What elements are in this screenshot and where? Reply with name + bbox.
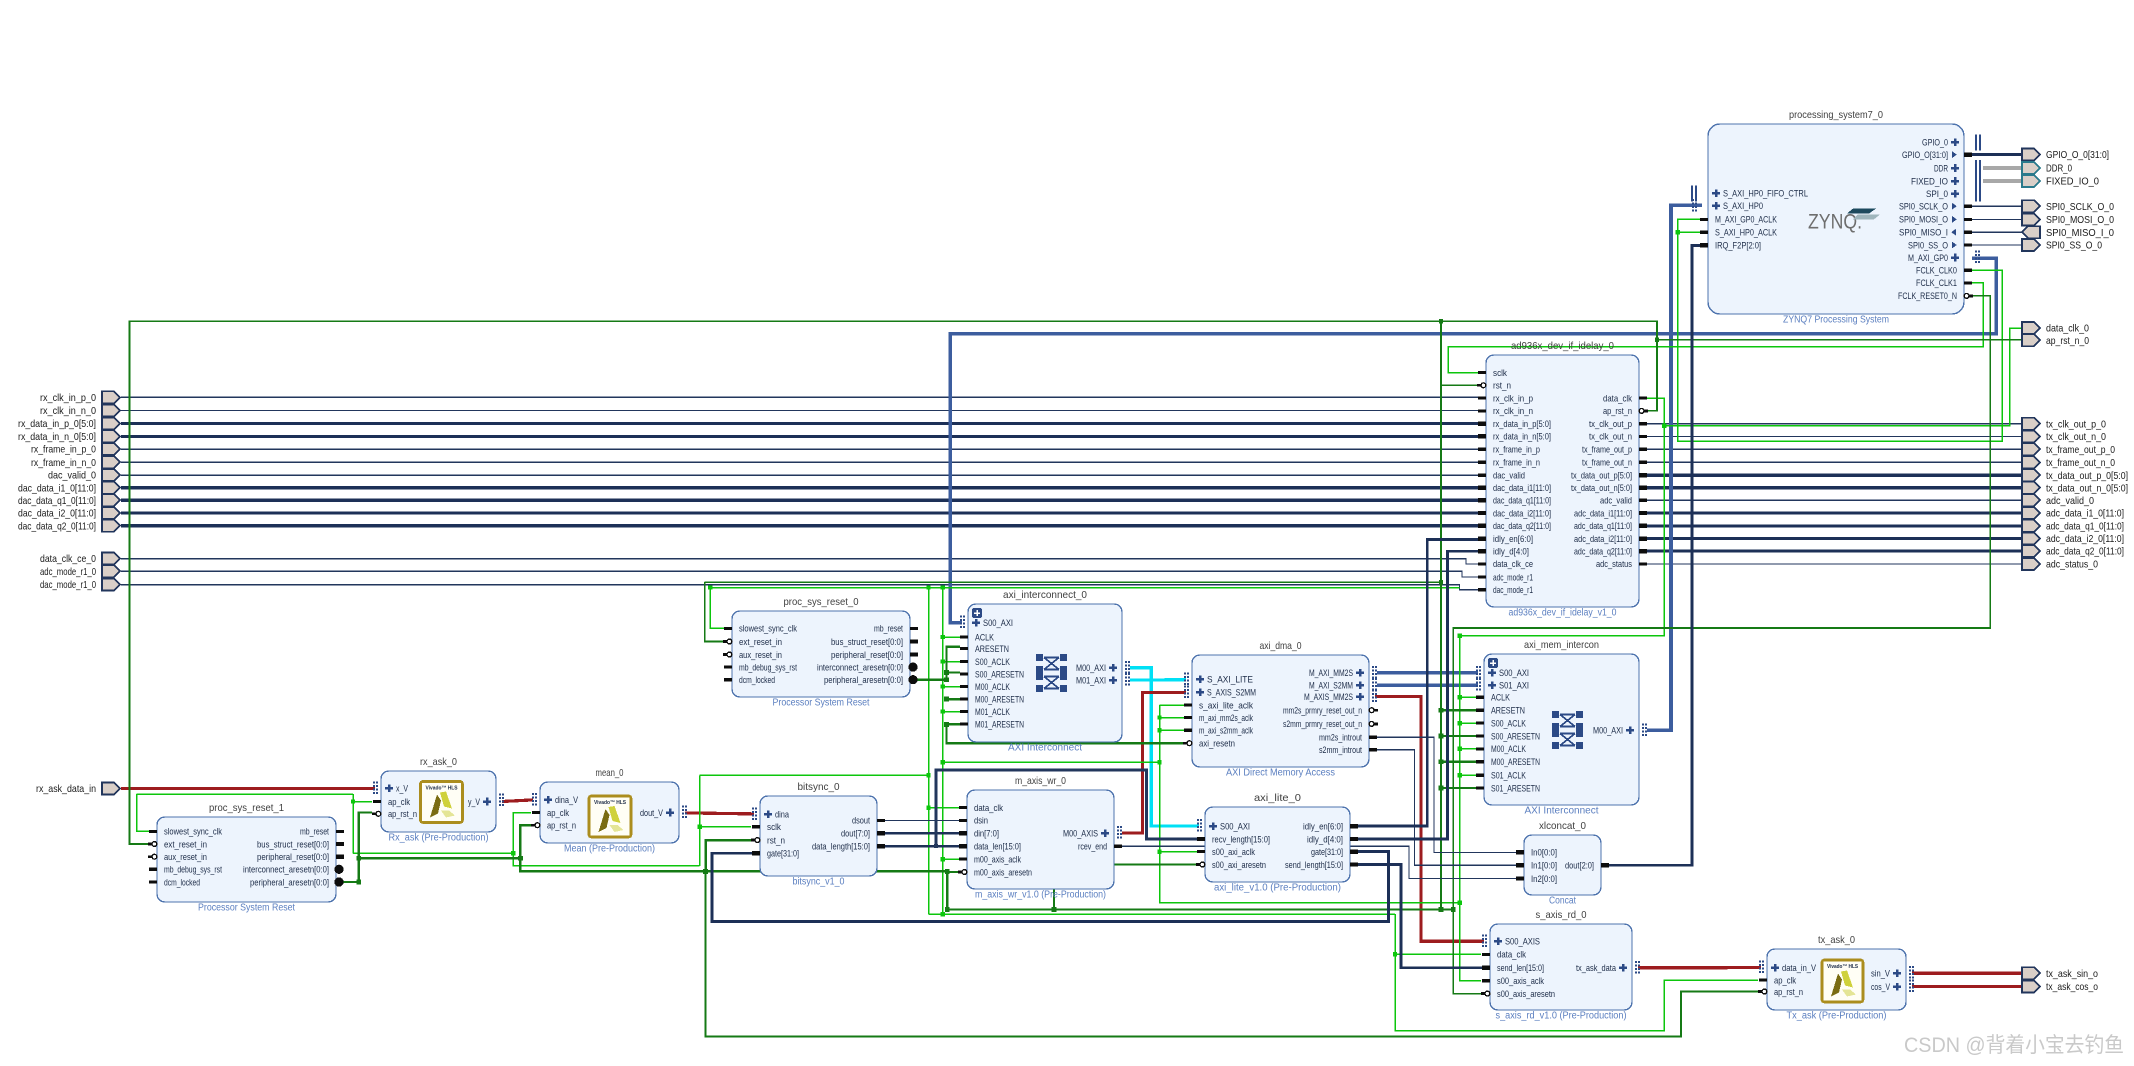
svg-text:s00_axis_aresetn: s00_axis_aresetn (1497, 989, 1555, 999)
svg-text:ap_clk: ap_clk (388, 797, 410, 807)
port tx_ask_cos_o (2022, 981, 2098, 994)
svg-text:tx_clk_out_p_0: tx_clk_out_p_0 (2046, 418, 2106, 430)
wire mem aresetn stub (1441, 709, 1476, 711)
wire mem aclk stub (1460, 774, 1476, 776)
svg-text:y_V: y_V (468, 797, 481, 807)
block bitsync_0 (751, 781, 885, 888)
svg-text:ap_rst_n: ap_rst_n (547, 821, 576, 831)
svg-text:dac_mode_r1: dac_mode_r1 (1493, 585, 1533, 595)
svg-text:bus_struct_reset[0:0]: bus_struct_reset[0:0] (831, 637, 903, 647)
svg-text:rx_frame_in_n_0: rx_frame_in_n_0 (31, 457, 96, 469)
port data_clk_ce_0 (40, 553, 120, 566)
wire data_length-&gt;data_len (884, 845, 960, 848)
svg-text:s00_axis_aclk: s00_axis_aclk (1497, 976, 1544, 986)
port tx_data_out_n_0[5:0] (2022, 482, 2128, 495)
svg-text:dcm_locked: dcm_locked (164, 877, 200, 887)
wire dma aclk stub (1160, 704, 1185, 706)
svg-text:S_AXI_HP0: S_AXI_HP0 (1723, 201, 1763, 211)
wire tx_data_out_n[5:0] (1647, 486, 2023, 489)
svg-text:tx_data_out_n[5:0]: tx_data_out_n[5:0] (1571, 483, 1632, 493)
wire idly_en (1357, 539, 1478, 826)
svg-text:adc_data_i1_0[11:0]: adc_data_i1_0[11:0] (2046, 508, 2124, 520)
wire adc_valid (1647, 499, 2023, 501)
svg-text:DDR_0: DDR_0 (2046, 163, 2072, 175)
svg-text:ZYNQ7 Processing System: ZYNQ7 Processing System (1783, 315, 1889, 326)
port SPI0_SS_O_0 (2022, 239, 2102, 252)
svg-text:rx_clk_in_n_0: rx_clk_in_n_0 (40, 405, 96, 417)
wire FIXED_IO (1983, 179, 2023, 183)
wire sclk stub (700, 826, 751, 828)
port SPI0_SCLK_O_0 (2022, 200, 2114, 213)
port rx_clk_in_p_0 (40, 391, 120, 404)
svg-text:SPI_0: SPI_0 (1926, 189, 1948, 199)
svg-text:AXI Direct Memory Access: AXI Direct Memory Access (1226, 768, 1335, 779)
port FIXED_IO_0 (2022, 175, 2099, 188)
svg-text:M00_AXI: M00_AXI (1593, 726, 1623, 736)
wire psr0 ext feed (705, 581, 1441, 583)
svg-text:adc_mode_r1_0: adc_mode_r1_0 (40, 566, 96, 578)
wire rx_data_in_p_0[5:0] (121, 422, 1478, 425)
svg-text:adc_mode_r1: adc_mode_r1 (1493, 572, 1533, 582)
svg-text:Concat: Concat (1549, 896, 1576, 907)
svg-text:M00_ARESETN: M00_ARESETN (1491, 757, 1540, 767)
block ad936x_dev_if_idelay_0 (1477, 340, 1648, 619)
svg-text:s00_axi_aclk: s00_axi_aclk (1212, 847, 1255, 857)
svg-text:dac_mode_r1_0: dac_mode_r1_0 (40, 579, 96, 591)
svg-text:tx_frame_out_p_0: tx_frame_out_p_0 (2046, 444, 2115, 456)
svg-text:Vivado™ HLS: Vivado™ HLS (426, 786, 458, 792)
wire M00_AXI-&gt;axi_lite.S00_AXI (1130, 668, 1199, 826)
svg-text:interconnect_aresetn[0:0]: interconnect_aresetn[0:0] (243, 865, 329, 875)
port rx_frame_in_n_0 (31, 456, 120, 469)
wire axilite aclk stub (1160, 851, 1198, 853)
port tx_clk_out_p_0 (2022, 418, 2106, 431)
svg-text:rx_ask_0: rx_ask_0 (420, 756, 457, 768)
wire saxisrd dclk drop (1395, 914, 1758, 1030)
svg-text:s2mm_prmry_reset_out_n: s2mm_prmry_reset_out_n (1283, 719, 1362, 729)
wire dma aclk stub (1160, 717, 1185, 719)
port ap_rst_n_0 (2022, 334, 2089, 347)
svg-text:S_AXIS_S2MM: S_AXIS_S2MM (1207, 688, 1256, 698)
svg-text:axi_lite_v1.0 (Pre-Production): axi_lite_v1.0 (Pre-Production) (1214, 883, 1341, 894)
block m_axis_wr_0 (958, 775, 1122, 901)
wire tx_clk_out_n (1647, 435, 2023, 437)
port rx_clk_in_n_0 (40, 405, 120, 418)
svg-text:dout[7:0]: dout[7:0] (841, 829, 870, 839)
svg-text:rx_frame_in_n: rx_frame_in_n (1493, 458, 1540, 468)
svg-text:tx_data_out_p[5:0]: tx_data_out_p[5:0] (1571, 471, 1632, 481)
svg-text:M_AXI_MM2S: M_AXI_MM2S (1309, 668, 1353, 678)
wire M_AXI_S2MM-&gt;S01_AXI(mem) (1377, 683, 1478, 687)
svg-text:sin_V: sin_V (1871, 969, 1891, 979)
svg-text:dac_data_q2[11:0]: dac_data_q2[11:0] (1493, 521, 1551, 531)
wire cos_V-&gt;port (1912, 985, 2023, 988)
svg-text:dout[2:0]: dout[2:0] (1565, 861, 1594, 871)
svg-text:mb_reset: mb_reset (874, 624, 903, 634)
port dac_valid_0 (48, 469, 120, 482)
svg-text:M_AXI_S2MM: M_AXI_S2MM (1309, 681, 1353, 691)
svg-text:M00_ACLK: M00_ACLK (1491, 744, 1527, 754)
svg-text:idly_d[4:0]: idly_d[4:0] (1493, 546, 1529, 556)
wire adc_data_q2[11:0] (1647, 550, 2023, 553)
svg-text:In0[0:0]: In0[0:0] (1531, 848, 1557, 858)
svg-text:SPI0_MISO_I: SPI0_MISO_I (1899, 228, 1948, 238)
svg-text:dac_data_q1[11:0]: dac_data_q1[11:0] (1493, 496, 1551, 506)
wire aclk stub (943, 661, 960, 663)
svg-text:M01_AXI: M01_AXI (1076, 675, 1106, 685)
svg-text:tx_frame_out_n_0: tx_frame_out_n_0 (2046, 457, 2115, 469)
svg-text:adc_data_q1[11:0]: adc_data_q1[11:0] (1574, 521, 1632, 531)
port DDR_0 (2022, 162, 2072, 175)
port data_clk_0 (2022, 322, 2089, 335)
block processing_system7_0 (1700, 109, 1973, 326)
block axi_mem_intercon (1476, 639, 1639, 817)
wire tx_frame_out_p (1647, 448, 2023, 450)
svg-text:tx_clk_out_n_0: tx_clk_out_n_0 (2046, 431, 2106, 443)
block mean_0 (531, 767, 679, 855)
wire rst_n stub (1441, 384, 1477, 386)
wire periph_aresetn0 (915, 647, 960, 680)
wire M00_AXIS-&gt;S_AXIS_S2MM (1122, 692, 1186, 833)
wire rx_frame_in_p_0 (121, 448, 1478, 450)
svg-text:axi_interconnect_0: axi_interconnect_0 (1003, 589, 1087, 601)
svg-text:peripheral_aresetn[0:0]: peripheral_aresetn[0:0] (824, 675, 903, 685)
svg-text:SPI0_SS_O_0: SPI0_SS_O_0 (2046, 240, 2102, 252)
svg-text:dac_data_q1_0[11:0]: dac_data_q1_0[11:0] (18, 495, 96, 507)
ZYNQ logo (1808, 209, 1880, 234)
svg-text:tx_ask_data: tx_ask_data (1576, 963, 1617, 973)
svg-text:ap_clk: ap_clk (547, 808, 569, 818)
svg-text:S00_AXIS: S00_AXIS (1505, 937, 1540, 947)
svg-text:Vivado™ HLS: Vivado™ HLS (1827, 964, 1858, 970)
port dac_data_q2_0[11:0] (18, 520, 120, 533)
wire rx_frame_in_n_0 (121, 461, 1478, 463)
svg-text:M_AXI_GP0: M_AXI_GP0 (1908, 253, 1948, 263)
svg-text:M00_ARESETN: M00_ARESETN (975, 694, 1024, 704)
svg-text:m_axi_mm2s_aclk: m_axi_mm2s_aclk (1199, 713, 1253, 723)
wire ap_rst_n main (130, 321, 1658, 844)
svg-text:s_axis_rd_v1.0 (Pre-Production: s_axis_rd_v1.0 (Pre-Production) (1496, 1011, 1627, 1022)
svg-text:S_AXI_HP0_FIFO_CTRL: S_AXI_HP0_FIFO_CTRL (1723, 189, 1808, 199)
svg-text:sclk: sclk (767, 822, 781, 832)
wire rcev_end-&gt;In2 (1121, 846, 1516, 878)
wire mem aresetn stub (1441, 735, 1476, 737)
svg-text:dac_data_i1[11:0]: dac_data_i1[11:0] (1493, 483, 1551, 493)
block xlconcat_0 (1516, 820, 1609, 907)
svg-text:Mean (Pre-Production): Mean (Pre-Production) (564, 844, 655, 855)
wire data_length-&gt;recv_length (936, 770, 1198, 846)
wire adc_data_i2[11:0] (1647, 537, 2023, 540)
wire sclk drop (699, 775, 701, 866)
wire bitsync rst (706, 840, 751, 871)
wire DDR (1983, 166, 2023, 170)
svg-text:FIXED_IO: FIXED_IO (1911, 176, 1948, 186)
svg-text:peripheral_reset[0:0]: peripheral_reset[0:0] (831, 650, 903, 660)
port tx_ask_sin_o (2022, 967, 2098, 980)
svg-text:ARESETN: ARESETN (975, 644, 1009, 654)
svg-text:rst_n: rst_n (767, 835, 785, 845)
svg-text:aux_reset_in: aux_reset_in (164, 852, 207, 862)
svg-text:ad936x_dev_if_idelay_0: ad936x_dev_if_idelay_0 (1511, 340, 1614, 352)
svg-text:AXI Interconnect: AXI Interconnect (1525, 806, 1599, 817)
svg-text:FIXED_IO_0: FIXED_IO_0 (2046, 176, 2099, 188)
wire axi_resetn feed (947, 724, 1184, 743)
port rx_data_in_p_0[5:0] (18, 418, 120, 431)
svg-text:ZYNQ.: ZYNQ. (1808, 211, 1862, 234)
svg-text:SPI0_SCLK_O_0: SPI0_SCLK_O_0 (2046, 201, 2114, 213)
wire mwr data_clk drop (928, 588, 930, 915)
svg-text:S01_ARESETN: S01_ARESETN (1491, 783, 1540, 793)
svg-text:aux_reset_in: aux_reset_in (739, 650, 782, 660)
wire rxask clk stub (353, 801, 372, 803)
wire M_AXIS_MM2S-&gt;S00_AXIS (1375, 697, 1484, 942)
svg-text:S00_AXI: S00_AXI (1220, 821, 1250, 831)
wire dout-&gt;din (884, 832, 960, 835)
svg-text:peripheral_aresetn[0:0]: peripheral_aresetn[0:0] (250, 877, 329, 887)
svg-text:adc_valid_0: adc_valid_0 (2046, 495, 2094, 507)
svg-text:M01_ARESETN: M01_ARESETN (975, 719, 1024, 729)
wire dma aclk stub (1160, 729, 1185, 731)
svg-text:GPIO_0: GPIO_0 (1922, 138, 1948, 148)
svg-text:adc_valid: adc_valid (1600, 496, 1632, 506)
wire dma aclk drop (1160, 705, 1460, 903)
wire sin_V-&gt;port (1912, 972, 2023, 975)
svg-text:peripheral_reset[0:0]: peripheral_reset[0:0] (257, 852, 329, 862)
wire aresetn rowB (947, 871, 1453, 909)
block axi_dma_0 (1183, 640, 1378, 779)
wire FCLK_CLK0 (1678, 219, 2003, 441)
svg-text:M00_ACLK: M00_ACLK (975, 682, 1011, 692)
svg-text:idly_en[6:0]: idly_en[6:0] (1493, 534, 1533, 544)
svg-text:dac_data_i2_0[11:0]: dac_data_i2_0[11:0] (18, 508, 96, 520)
svg-text:mb_debug_sys_rst: mb_debug_sys_rst (164, 865, 222, 875)
port dac_data_i2_0[11:0] (18, 507, 120, 520)
svg-text:SPI0_MISO_I_0: SPI0_MISO_I_0 (2046, 227, 2114, 239)
svg-text:proc_sys_reset_0: proc_sys_reset_0 (784, 596, 859, 608)
port rx_frame_in_p_0 (31, 443, 120, 456)
wire dac_data_i1_0[11:0] (121, 486, 1478, 489)
svg-text:rx_data_in_p_0[5:0]: rx_data_in_p_0[5:0] (18, 418, 96, 430)
wire rx_data_in_n_0[5:0] (121, 435, 1478, 438)
svg-text:data_in_V: data_in_V (1782, 963, 1817, 973)
wire mean rst (520, 825, 531, 858)
wire aclk row y587 (710, 587, 1459, 589)
svg-text:rx_frame_in_p_0: rx_frame_in_p_0 (31, 444, 96, 456)
svg-text:dout_V: dout_V (640, 808, 664, 818)
svg-text:dina_V: dina_V (555, 795, 579, 805)
svg-text:bus_struct_reset[0:0]: bus_struct_reset[0:0] (257, 839, 329, 849)
wire saxisrd aclk drop (1460, 636, 1481, 981)
svg-text:rx_clk_in_p: rx_clk_in_p (1493, 393, 1533, 403)
svg-text:S01_ACLK: S01_ACLK (1491, 771, 1527, 781)
svg-text:dsin: dsin (974, 816, 988, 826)
svg-text:data_len[15:0]: data_len[15:0] (974, 842, 1021, 852)
svg-text:rx_data_in_n_0[5:0]: rx_data_in_n_0[5:0] (18, 431, 96, 443)
port tx_frame_out_p_0 (2022, 443, 2115, 456)
wire GPIO_O (1972, 153, 2023, 156)
svg-text:In2[0:0]: In2[0:0] (1531, 874, 1557, 884)
wire S_AXI_HP0_ACLK stub (1678, 231, 1702, 233)
wire psr1 clk (137, 794, 149, 831)
svg-text:dsout: dsout (852, 816, 870, 826)
svg-text:Rx_ask (Pre-Production): Rx_ask (Pre-Production) (389, 833, 489, 844)
svg-text:axi_resetn: axi_resetn (1199, 739, 1235, 749)
wire dac_valid_0 (121, 474, 1478, 476)
svg-text:adc_data_q1_0[11:0]: adc_data_q1_0[11:0] (2046, 520, 2124, 532)
svg-text:Processor System Reset: Processor System Reset (198, 903, 295, 914)
svg-text:xlconcat_0: xlconcat_0 (1539, 820, 1586, 832)
wire dout-&gt;IRQ_F2P (1609, 245, 1702, 865)
wire m00aclk stub (943, 858, 959, 860)
svg-text:IRQ_F2P[2:0]: IRQ_F2P[2:0] (1715, 241, 1761, 251)
svg-text:adc_status_0: adc_status_0 (2046, 559, 2098, 571)
port rx_data_in_n_0[5:0] (18, 430, 120, 443)
svg-text:s_axis_rd_0: s_axis_rd_0 (1536, 909, 1587, 921)
svg-text:axi_dma_0: axi_dma_0 (1260, 640, 1302, 652)
wire dac_data_i2_0[11:0] (121, 511, 1478, 514)
svg-text:S00_ARESETN: S00_ARESETN (975, 669, 1024, 679)
svg-text:dina: dina (775, 810, 790, 820)
svg-text:SPI0_MOSI_O_0: SPI0_MOSI_O_0 (2046, 214, 2114, 226)
svg-text:tx_ask_0: tx_ask_0 (1818, 934, 1855, 946)
svg-text:tx_ask_cos_o: tx_ask_cos_o (2046, 981, 2098, 993)
block s_axis_rd_0 (1481, 909, 1632, 1022)
svg-text:GPIO_O_0[31:0]: GPIO_O_0[31:0] (2046, 149, 2109, 161)
svg-text:s_axi_lite_aclk: s_axi_lite_aclk (1199, 700, 1253, 710)
svg-text:rx_data_in_p[5:0]: rx_data_in_p[5:0] (1493, 419, 1551, 429)
wire row762 (943, 761, 1160, 763)
svg-text:S00_ACLK: S00_ACLK (1491, 718, 1527, 728)
svg-text:adc_data_q2_0[11:0]: adc_data_q2_0[11:0] (2046, 546, 2124, 558)
port GPIO_O_0[31:0] (2022, 149, 2109, 162)
svg-text:ap_rst_n: ap_rst_n (388, 809, 417, 819)
svg-text:S_AXI_HP0_ACLK: S_AXI_HP0_ACLK (1715, 228, 1778, 238)
svg-text:S01_AXI: S01_AXI (1499, 681, 1529, 691)
wire idly_d (1357, 551, 1478, 839)
port tx_frame_out_n_0 (2022, 456, 2115, 469)
wire send_length (1357, 865, 1484, 968)
svg-text:data_clk: data_clk (1497, 950, 1526, 960)
wire mem aresetn stub (1441, 761, 1476, 763)
wire SPI0_MOSI_O (1972, 218, 2023, 220)
svg-text:s00_axi_aresetn: s00_axi_aresetn (1212, 860, 1266, 870)
wire mwr row y914 (929, 913, 1396, 915)
svg-text:ap_clk: ap_clk (1774, 975, 1796, 985)
wire ap_rst_n-&gt;port (1657, 339, 2023, 341)
svg-text:SPI0_SS_O: SPI0_SS_O (1908, 240, 1948, 250)
svg-text:In1[0:0]: In1[0:0] (1531, 861, 1557, 871)
port adc_valid_0 (2022, 494, 2094, 507)
svg-text:M_AXIS_MM2S: M_AXIS_MM2S (1304, 692, 1353, 702)
svg-text:tx_clk_out_p: tx_clk_out_p (1589, 419, 1632, 429)
wire aclk stub (943, 686, 960, 688)
svg-text:rx_data_in_n[5:0]: rx_data_in_n[5:0] (1493, 432, 1551, 442)
wire aresetn stub (947, 698, 961, 700)
wire adc_status (1647, 563, 2023, 565)
svg-text:adc_data_q2[11:0]: adc_data_q2[11:0] (1574, 546, 1632, 556)
svg-text:M_AXI_GP0_ACLK: M_AXI_GP0_ACLK (1715, 215, 1778, 225)
svg-text:dac_data_i2[11:0]: dac_data_i2[11:0] (1493, 508, 1551, 518)
svg-text:FCLK_CLK0: FCLK_CLK0 (1916, 266, 1957, 276)
svg-text:SPI0_SCLK_O: SPI0_SCLK_O (1899, 202, 1948, 212)
port SPI0_MOSI_O_0 (2022, 213, 2114, 226)
svg-text:S00_AXI: S00_AXI (1499, 668, 1529, 678)
wire adc_data_q1[11:0] (1647, 524, 2023, 527)
svg-text:bitsync_v1_0: bitsync_v1_0 (793, 877, 845, 888)
svg-text:adc_data_i2[11:0]: adc_data_i2[11:0] (1574, 534, 1632, 544)
wire rx_ask_data_in (121, 787, 375, 790)
svg-text:data_clk: data_clk (974, 803, 1003, 813)
wire adc_mode_r1_0 (121, 571, 1478, 577)
svg-text:mm2s_prmry_reset_out_n: mm2s_prmry_reset_out_n (1283, 706, 1362, 716)
svg-text:gate[31:0]: gate[31:0] (1311, 847, 1343, 857)
svg-text:data_clk: data_clk (1603, 393, 1632, 403)
svg-text:idly_d[4:0]: idly_d[4:0] (1307, 834, 1343, 844)
port adc_data_q2_0[11:0] (2022, 545, 2124, 558)
svg-text:bitsync_0: bitsync_0 (798, 781, 840, 793)
svg-text:sclk: sclk (1493, 368, 1507, 378)
wire M_AXI_MM2S-&gt;S00_AXI(mem) (1377, 671, 1478, 675)
svg-text:AXI Interconnect: AXI Interconnect (1008, 743, 1082, 754)
port adc_data_q1_0[11:0] (2022, 520, 2124, 533)
svg-text:dac_valid_0: dac_valid_0 (48, 470, 96, 482)
wire aresetn stub (947, 723, 961, 725)
port SPI0_MISO_I_0 (2022, 226, 2114, 239)
svg-text:gate[31:0]: gate[31:0] (767, 849, 799, 859)
block rx_ask_0 (372, 756, 496, 844)
svg-text:slowest_sync_clk: slowest_sync_clk (739, 624, 797, 634)
svg-text:M00_AXIS: M00_AXIS (1063, 828, 1098, 838)
wire saxisrd dclk stub (1395, 953, 1481, 955)
port adc_mode_r1_0 (40, 565, 120, 578)
wire aresetn rowA (359, 858, 948, 871)
svg-text:rcev_end: rcev_end (1078, 842, 1107, 852)
svg-text:data_clk_ce: data_clk_ce (1493, 559, 1533, 569)
svg-text:data_length[15:0]: data_length[15:0] (812, 842, 870, 852)
svg-text:idly_en[6:0]: idly_en[6:0] (1303, 821, 1343, 831)
wire SPI0_MISO_I (1972, 231, 2023, 233)
wire hls clk row (137, 793, 353, 795)
svg-text:S00_ACLK: S00_ACLK (975, 657, 1011, 667)
wire dout_V-&gt;dina (685, 813, 754, 814)
wire mwr data_clk stub (929, 807, 960, 809)
wire aclk stub (943, 711, 960, 713)
wire SPI0_SCLK_O (1972, 205, 2023, 207)
wire dsout-&gt;dsin (884, 819, 960, 821)
svg-text:adc_data_i1[11:0]: adc_data_i1[11:0] (1574, 508, 1632, 518)
wire s2mm_introut-&gt;In1 (1376, 750, 1516, 866)
svg-text:ext_reset_in: ext_reset_in (164, 839, 207, 849)
svg-text:M00_AXI: M00_AXI (1076, 663, 1106, 673)
wire rx_clk_in_p_0 (121, 396, 1478, 398)
wire ACLK drop x942 (942, 588, 944, 915)
svg-text:tx_data_out_p_0[5:0]: tx_data_out_p_0[5:0] (2046, 470, 2128, 482)
svg-text:ap_rst_n: ap_rst_n (1603, 406, 1632, 416)
wire aresetn stub (947, 671, 961, 673)
svg-text:data_clk_ce_0: data_clk_ce_0 (40, 553, 96, 565)
wire txask rst drop (706, 871, 1758, 1036)
svg-text:Processor System Reset: Processor System Reset (773, 698, 870, 709)
svg-text:S00_AXI: S00_AXI (983, 618, 1013, 628)
wire data_clk main (1460, 398, 1665, 775)
wire psr0 ext drop (705, 582, 723, 641)
wire M01_AXI-&gt;S_AXI_LITE (1130, 678, 1186, 682)
svg-text:m_axi_s2mm_aclk: m_axi_s2mm_aclk (1199, 726, 1253, 736)
svg-text:ap_rst_n_0: ap_rst_n_0 (2046, 335, 2089, 347)
port dac_mode_r1_0 (40, 579, 120, 592)
svg-text:rx_frame_in_p: rx_frame_in_p (1493, 445, 1540, 455)
wire mm2s_introut-&gt;In0 (1376, 737, 1516, 852)
